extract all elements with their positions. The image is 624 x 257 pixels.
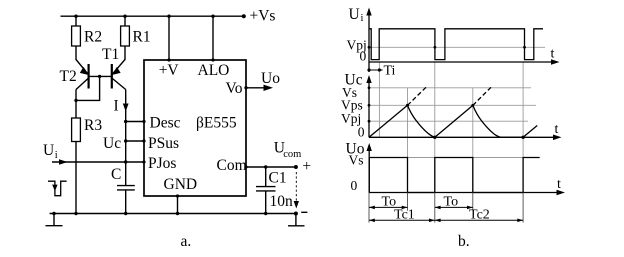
pin Desc [124,115,181,132]
label minus [301,211,307,213]
negative pulse symbol [48,181,67,196]
svg-text:I: I [114,98,119,115]
svg-text:C1: C1 [269,170,287,187]
svg-text:b.: b. [458,233,470,250]
grid vertical t2 (pulse2 fall) [434,62,436,193]
svg-text:T1: T1 [102,46,119,63]
level line Vps [369,104,536,106]
grid vertical t3 (peak1) [407,88,409,193]
axis Uc horizontal t [369,122,562,140]
level line Vs [369,87,531,89]
svg-text:+: + [302,158,311,175]
junction rail-C1 [264,212,267,215]
node Ui input label [43,142,58,161]
waveform Uc dashed projection 2 [473,87,491,105]
dimension To first [369,195,408,210]
grid vertical t1 (end of Ti) [378,62,380,137]
pin Vo [226,80,248,97]
junction PJos-C node [124,160,127,163]
level line Vpj (Ui) [369,46,545,48]
grid vertical t5 (pulse3 fall) [522,62,524,193]
junction rail-R2 [74,15,77,18]
junction rail-ALO pin [211,15,214,18]
junction Uc axis level dots [368,86,371,122]
junction Ui axis Vpj dot [368,46,371,49]
ground (left) [46,214,63,226]
junction rail-GND [176,212,179,215]
svg-text:PJos: PJos [148,155,176,172]
capacitor C1 10n [256,165,293,213]
junction Uc peak1 dot [406,104,409,107]
svg-text:Vo: Vo [226,80,243,97]
transistor T2 (PNP, diode-connected) [60,60,89,119]
svg-text:ALO: ALO [198,62,230,79]
wire top +Vs rail [61,15,244,17]
pin +V [159,16,180,79]
svg-text:+V: +V [159,62,180,79]
svg-text:a.: a. [181,233,192,250]
svg-text:t: t [557,177,561,192]
junction T2 collector node [74,99,77,102]
axis Uo vertical [346,140,372,192]
current arrow I [123,104,129,112]
pin ALO [198,16,230,79]
junction rail-R3 [74,212,77,215]
svg-text:t: t [551,47,555,62]
junction pulse2 Vpj dot [434,46,437,49]
axis Uc vertical [345,71,372,137]
svg-text:R3: R3 [84,117,102,134]
junction rail-+V pin [167,15,170,18]
wire T2/T1 base link [89,75,112,77]
svg-text:10n: 10n [270,193,294,210]
waveform Ui [369,29,543,60]
svg-text:R2: R2 [84,29,102,46]
junction Uc restart dot [521,136,524,139]
svg-text:U: U [349,6,360,23]
svg-text:t: t [555,122,559,137]
wire Uo output with arrow [246,70,280,91]
svg-text:0: 0 [360,48,367,63]
svg-text:Uo: Uo [261,70,280,87]
svg-text:PSus: PSus [148,135,179,152]
pin Com [217,157,296,174]
node +Vs terminal dot [242,14,246,18]
svg-text:C: C [111,166,121,183]
svg-text:i: i [361,13,364,24]
op-amp U1 : timer IC box βE555 [144,60,246,196]
grid vertical t4 (peak2) [472,88,474,193]
dimension Tc1 [369,208,435,223]
dimension Tc2 [435,208,523,223]
level line Vs (Uo) [369,157,540,159]
junction Uc bottom1 dot [433,136,436,139]
axis Ui horizontal t [369,47,560,65]
waveform Uc decay1 [407,105,434,137]
waveform Uc dashed projection 1 [408,87,427,105]
svg-text:Vs: Vs [349,152,364,167]
wire bottom ground rail [50,213,296,215]
svg-text:Tc2: Tc2 [469,208,490,223]
resistor R3 [72,117,103,214]
svg-text:T2: T2 [60,68,77,85]
svg-text:0: 0 [358,125,365,140]
dimension Ti [367,64,395,79]
capacitor C [111,166,135,214]
dimension extension lines [369,193,523,223]
svg-text:Tc1: Tc1 [394,208,415,223]
pin GND [164,176,198,214]
axis Ui vertical [349,6,372,72]
wire base-to-collector tie of T2 [76,76,100,100]
svg-text:Ti: Ti [384,64,396,79]
svg-text:Desc: Desc [150,115,181,132]
svg-text:GND: GND [164,176,198,193]
junction rail-ground-left [52,212,55,215]
svg-text:βE555: βE555 [196,115,237,132]
wire Ui input to PJos [52,161,144,163]
junction base node [98,75,101,78]
pin PSus (node Uc) [124,135,179,152]
svg-text:com: com [283,149,301,160]
svg-text:Uc: Uc [103,135,121,152]
svg-text:R1: R1 [133,29,151,46]
input arrow [59,159,68,165]
junction rail right end [294,212,298,216]
junction pulse3 Vpj dot [523,46,526,49]
waveform Uc ramp3 [523,126,537,138]
waveform Uc ramp1 [369,105,408,137]
waveform Uo [369,158,539,193]
svg-text:i: i [55,150,58,161]
resistor R2 [72,16,102,60]
dimension To second [435,195,473,210]
junction rail-C [124,212,127,215]
node Ucom terminal [274,140,311,176]
Ucom measurement arrow (dashed) [294,172,299,209]
waveform Uc decay2 [473,105,523,137]
svg-text:0: 0 [351,178,358,193]
transistor T1 (PNP) [102,46,126,90]
level line Vpj (Uc) [369,120,528,122]
waveform Uc ramp2 [435,105,473,137]
resistor R1 [121,16,151,60]
wire T1 collector to Desc/C (node Uc) [125,90,127,186]
svg-text:+Vs: +Vs [250,7,276,24]
junction Uc peak2 dot [471,104,474,107]
pin PJos [142,155,176,172]
svg-text:To: To [444,195,459,210]
axis Uo horizontal t [369,177,565,195]
junction rail-R1 [123,15,126,18]
ground (right) [288,214,305,226]
svg-text:Com: Com [217,157,247,174]
svg-text:U: U [43,142,54,159]
